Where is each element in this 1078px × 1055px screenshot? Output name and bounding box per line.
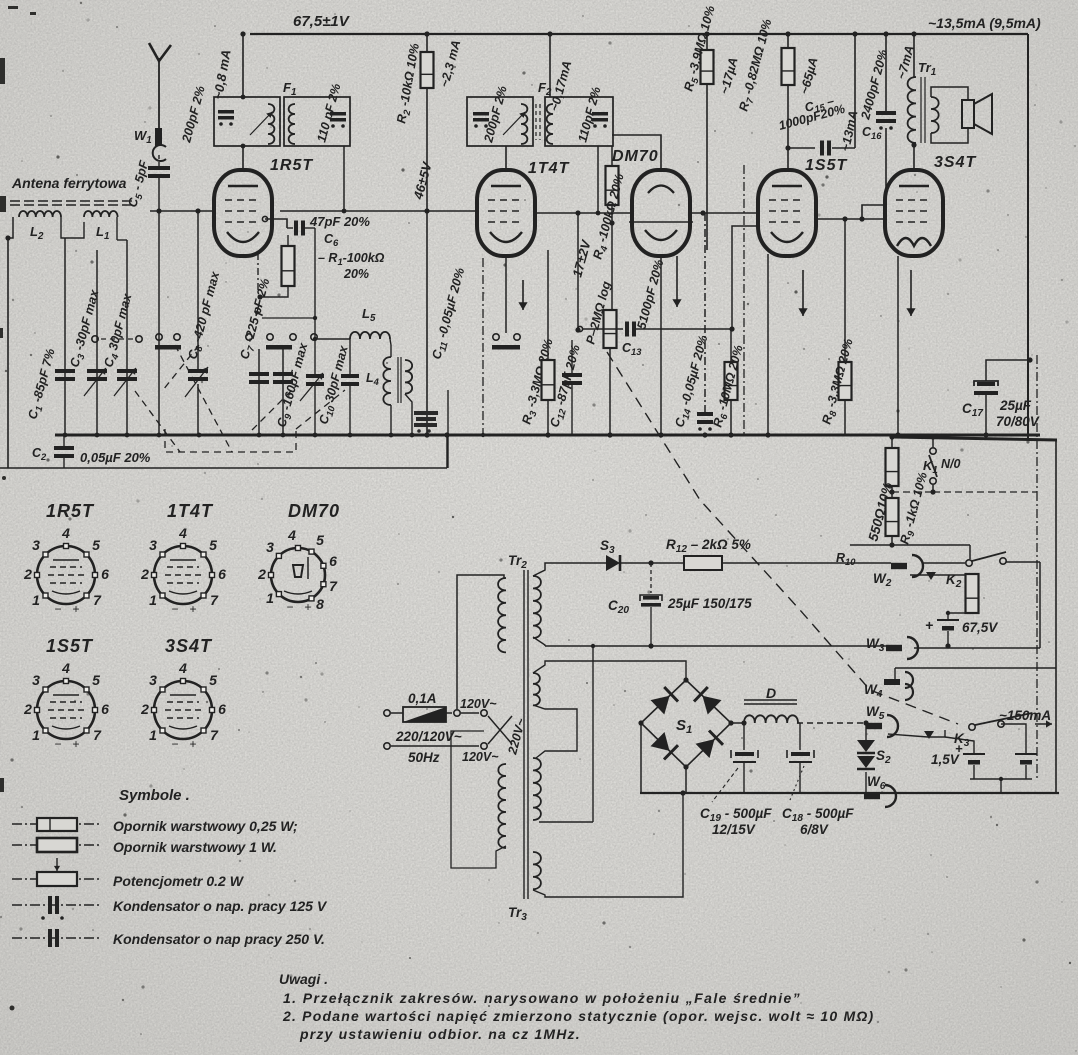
svg-text:2: 2 bbox=[23, 566, 32, 582]
wire C12 top bbox=[571, 340, 573, 373]
svg-text:−: − bbox=[171, 602, 178, 616]
wire S1 to D bbox=[731, 722, 744, 724]
wire F1 out to grid bbox=[343, 146, 345, 211]
wire Tr1 primary top bbox=[913, 34, 915, 77]
wire L1 right end bbox=[116, 217, 118, 240]
node 17V bbox=[575, 327, 580, 332]
wire PSU bottom bus bbox=[640, 792, 1059, 794]
node battery bbox=[946, 611, 950, 615]
coil L6 bbox=[405, 360, 412, 394]
svg-text:+: + bbox=[955, 741, 963, 756]
svg-text:4: 4 bbox=[178, 525, 187, 541]
svg-text:DM70: DM70 bbox=[612, 148, 659, 165]
capacitor C5 5pF bbox=[148, 166, 170, 178]
svg-text:7: 7 bbox=[329, 578, 338, 594]
svg-text:3: 3 bbox=[149, 537, 157, 553]
resistor R5 3,9M bbox=[701, 50, 714, 84]
wire C13 to 1S5T grid bbox=[636, 328, 732, 330]
wire F2 out to grid bbox=[597, 146, 599, 213]
IF transformer F1 box1 bbox=[214, 97, 280, 146]
svg-text:Kondensator o nap. pracy 125: Kondensator o nap. pracy 125 V bbox=[113, 898, 328, 914]
svg-text:6: 6 bbox=[101, 566, 109, 582]
wire C16 top bbox=[885, 34, 887, 111]
svg-text:1T4T: 1T4T bbox=[528, 160, 570, 177]
resistor R12 2k bbox=[684, 556, 722, 570]
wire S1 bottom down bbox=[685, 767, 687, 793]
wire L4 down bbox=[390, 405, 392, 435]
wire 13mA column bbox=[854, 34, 856, 148]
wire 3S4T filament bbox=[897, 256, 899, 435]
vacuum tube V1 1R5T bbox=[214, 170, 272, 256]
gang dash 5 bbox=[252, 385, 297, 430]
jack W4 bbox=[884, 672, 913, 700]
wire F2 to 1T4T anode bbox=[505, 146, 507, 170]
svg-text:+: + bbox=[72, 602, 79, 616]
switch contact i bbox=[493, 334, 499, 340]
node bus bbox=[281, 433, 286, 438]
node bus 0,17mA bbox=[547, 31, 552, 36]
wire Tr1 to 3S4T anode bbox=[913, 143, 915, 171]
node top bbox=[240, 31, 245, 36]
svg-text:50Hz: 50Hz bbox=[408, 750, 440, 765]
wire C2 top bbox=[63, 435, 65, 447]
wire C20 bottom bbox=[650, 607, 652, 646]
svg-text:1: 1 bbox=[266, 590, 274, 606]
wire C17 top bbox=[986, 360, 1030, 381]
coil Tr1 secondary bbox=[931, 97, 939, 133]
wire L2 left end bbox=[8, 217, 13, 238]
wire R8 column bbox=[844, 219, 846, 362]
node R10 R9 bbox=[889, 489, 894, 494]
speaker bbox=[962, 94, 992, 134]
capacitor C8 420pF bbox=[188, 369, 208, 381]
svg-text:~150mA: ~150mA bbox=[999, 708, 1051, 723]
coil Tr2 LV secondary bbox=[533, 673, 540, 705]
svg-text:1S5T: 1S5T bbox=[805, 157, 847, 174]
resistor R2 10k bbox=[421, 52, 434, 88]
node R9 out bbox=[889, 542, 894, 547]
svg-text:1R5T: 1R5T bbox=[46, 501, 95, 521]
wire switch to L5 bbox=[317, 338, 350, 340]
wire K2 to W3 loop bbox=[1039, 562, 1041, 648]
node bus C16 bbox=[883, 31, 888, 36]
switch contact e bbox=[246, 334, 252, 340]
wire C7 column bbox=[258, 349, 260, 435]
wire HV to S3 bbox=[533, 563, 606, 576]
node bus R5 bbox=[704, 31, 709, 36]
svg-text:1. Przełącznik zakresów. nary: 1. Przełącznik zakresów. narysowano w po… bbox=[283, 990, 801, 1006]
wire L5 to L4 bbox=[390, 339, 391, 357]
svg-text:6: 6 bbox=[329, 553, 337, 569]
wire Tr3 loop bbox=[533, 793, 683, 897]
svg-text:7: 7 bbox=[93, 592, 102, 608]
svg-text:1: 1 bbox=[32, 727, 40, 743]
wire to C15 bbox=[788, 147, 815, 149]
core Tr b bbox=[527, 570, 529, 899]
svg-text:5: 5 bbox=[316, 532, 324, 548]
svg-text:+: + bbox=[189, 602, 196, 616]
svg-text:47pF 20%: 47pF 20% bbox=[309, 214, 370, 229]
wire C16 to grid node bbox=[862, 205, 886, 219]
svg-text:1: 1 bbox=[149, 727, 157, 743]
wire heater drop bbox=[592, 646, 594, 822]
switch contact h bbox=[311, 334, 317, 340]
pinout 1S5T bbox=[23, 660, 109, 751]
switch dash a-b bbox=[101, 338, 133, 340]
factory stamp blob bbox=[414, 411, 438, 433]
node bus R2 bbox=[424, 31, 429, 36]
svg-text:1T4T: 1T4T bbox=[167, 501, 214, 521]
wire fuse out bbox=[446, 712, 452, 714]
svg-text:3S4T: 3S4T bbox=[165, 636, 213, 656]
capacitor C3 trimmer bbox=[87, 369, 107, 381]
node R6 top bbox=[729, 326, 734, 331]
gang dash 1 bbox=[135, 391, 180, 452]
node Tr3 bus bbox=[680, 790, 685, 795]
wire 1R5T out bbox=[265, 219, 287, 228]
wire main ground bus bbox=[55, 434, 1040, 437]
contact K1 bottom bbox=[930, 478, 936, 484]
node R6 bus bbox=[728, 432, 733, 437]
wire grid column down bbox=[197, 211, 199, 369]
legend potentiometer bbox=[37, 872, 77, 886]
wire K3 to cap bbox=[1001, 724, 1026, 753]
node AVC tap bbox=[313, 316, 317, 320]
contact K3 right bbox=[998, 721, 1004, 727]
dash-dot right border upper bbox=[1036, 355, 1038, 492]
terminal mains L bbox=[384, 710, 390, 716]
hook W1 bbox=[153, 145, 166, 161]
arrow C4 bbox=[114, 368, 136, 396]
svg-text:przy ustawieniu odbior. na cz: przy ustawieniu odbior. na cz 1MHz. bbox=[299, 1026, 581, 1042]
selector cross a bbox=[488, 716, 512, 744]
inductor D choke bbox=[744, 715, 798, 723]
core F2b bbox=[539, 104, 541, 140]
coil Tr2 primary upper bbox=[498, 578, 506, 652]
resistor R8 3,3M bbox=[839, 362, 852, 400]
svg-text:+: + bbox=[189, 737, 196, 751]
capacitor C7 225pF bbox=[249, 372, 269, 384]
fuse 0,1A bbox=[403, 707, 446, 722]
node heater W3 bbox=[591, 644, 595, 648]
core D a bbox=[744, 699, 797, 701]
capacitor C12 87pF bbox=[562, 373, 582, 385]
wire HV bottom bbox=[533, 637, 545, 646]
jack W2 bbox=[891, 555, 923, 577]
trimmer cap 110pF in F1 bbox=[330, 112, 346, 128]
wire DM70 to 1S5T bbox=[690, 212, 757, 214]
dash-dot 1T4T column bbox=[482, 258, 484, 435]
capacitor C15 1000pF bbox=[820, 141, 831, 156]
wire L1 to C4 bbox=[117, 239, 127, 241]
core L4 b bbox=[400, 357, 402, 403]
gang dash 2 bbox=[175, 345, 232, 452]
svg-text:25µF: 25µF bbox=[999, 398, 1032, 413]
tuning arrow F1 bbox=[250, 112, 272, 135]
wire to 1,5V battery bbox=[945, 737, 974, 753]
capacitor C10b trimmer bbox=[341, 374, 359, 386]
resistor R7 0,82M bbox=[782, 48, 795, 85]
svg-text:1S5T: 1S5T bbox=[46, 636, 94, 656]
resistor R4 100k bbox=[606, 166, 619, 205]
capacitor C9 trimmer bbox=[273, 372, 293, 384]
node K1 link bbox=[930, 489, 935, 494]
svg-text:Kondensator o nap pracy 250 V: Kondensator o nap pracy 250 V. bbox=[113, 931, 325, 947]
wire S3 to R12 bbox=[620, 562, 684, 564]
wire left border bbox=[7, 238, 9, 468]
svg-text:5: 5 bbox=[209, 537, 217, 553]
svg-text:1R5T: 1R5T bbox=[270, 157, 313, 174]
node DM70 grid bbox=[575, 210, 580, 215]
legend lead r1 bbox=[12, 823, 100, 825]
coil F2 primary bbox=[521, 104, 527, 144]
core D b bbox=[744, 703, 797, 705]
contact K1 top bbox=[930, 448, 936, 454]
node bus bbox=[445, 433, 450, 438]
svg-text:6: 6 bbox=[218, 566, 226, 582]
wire C20 top bbox=[650, 563, 652, 593]
node bus bbox=[348, 433, 353, 438]
wire R10 top bbox=[891, 437, 893, 448]
capacitor C13 5100pF bbox=[625, 322, 636, 337]
legend lead cap250 bbox=[12, 937, 100, 939]
node DM70 out bbox=[700, 210, 705, 215]
wire 1S5T grid to R6 bbox=[732, 226, 758, 329]
legend pot arrow bbox=[54, 858, 60, 871]
wire W2 contact to K2 bbox=[910, 574, 965, 576]
gang dash 3 bbox=[163, 345, 199, 390]
coupling coil W1 bbox=[155, 128, 162, 146]
wire R1 bottom bbox=[260, 286, 288, 297]
node C17 right border bbox=[1027, 357, 1032, 362]
battery 67,5V bbox=[937, 620, 959, 631]
node R4 bbox=[609, 220, 614, 225]
legend lead pot bbox=[12, 878, 100, 880]
capacitor C19 500uF bbox=[731, 750, 758, 762]
svg-text:70/80V: 70/80V bbox=[996, 414, 1040, 429]
node F1 out bbox=[342, 209, 347, 214]
coil F2 secondary bbox=[547, 104, 553, 144]
core Tr1 a bbox=[920, 77, 922, 143]
core Tr1 b bbox=[924, 77, 926, 143]
pinout 1R5T bbox=[23, 525, 109, 616]
diode S3 bbox=[606, 555, 620, 571]
node S1 left bbox=[638, 720, 643, 725]
wire wiper to C13 bbox=[583, 328, 623, 330]
potentiometer P 2M bbox=[604, 310, 617, 348]
node L5 row bbox=[313, 337, 317, 341]
wire to fuse bbox=[391, 712, 403, 714]
node Tr1 bottom bbox=[911, 142, 916, 147]
node bus bbox=[95, 433, 100, 438]
svg-text:5: 5 bbox=[92, 537, 100, 553]
capacitor C1 85pF bbox=[55, 369, 75, 381]
wire 1S5T cathode bbox=[767, 254, 769, 435]
wire mains N bbox=[391, 745, 479, 747]
node W5 bbox=[863, 720, 868, 725]
coil L1 bbox=[84, 211, 118, 217]
wire C10b down bbox=[349, 384, 351, 435]
resistor K2 bleeder bbox=[966, 574, 979, 613]
node bus bbox=[157, 433, 162, 438]
vacuum tube V3 DM70 bbox=[629, 170, 693, 256]
pinout 1T4T bbox=[140, 525, 226, 616]
pinout DM70 bbox=[257, 527, 338, 614]
wire to K2 blade bbox=[969, 545, 971, 559]
wire C6 to R1 bbox=[287, 235, 289, 246]
wire C5 down bbox=[158, 178, 160, 211]
wire to battery 67,5V bbox=[948, 612, 972, 614]
node grid left bbox=[195, 208, 200, 213]
svg-text:4: 4 bbox=[61, 525, 70, 541]
leader C19 bbox=[712, 768, 738, 802]
wire LV to S1 bbox=[533, 661, 686, 680]
contact 120V bottom bbox=[481, 743, 487, 749]
coil Tr3 winding lower bbox=[533, 852, 541, 889]
node bus 13mA bbox=[852, 31, 857, 36]
contact K2 left bbox=[966, 560, 972, 566]
node C16 tap bbox=[859, 216, 864, 221]
switch bar 1 bbox=[155, 345, 181, 350]
capacitor C14 0,05uF bbox=[697, 412, 713, 431]
svg-text:5: 5 bbox=[92, 672, 100, 688]
wire R3 top bbox=[547, 250, 549, 360]
node 3S4T bus bbox=[895, 432, 900, 437]
svg-text:Potencjometr 0.2 W: Potencjometr 0.2 W bbox=[113, 873, 245, 889]
wire R9 bottom bbox=[891, 536, 893, 545]
node bus bbox=[313, 433, 318, 438]
svg-text:7: 7 bbox=[210, 592, 219, 608]
wire 1,5V bottom bbox=[973, 765, 975, 779]
switch bar 2 bbox=[266, 345, 292, 350]
coil Tr1 primary bbox=[908, 77, 916, 143]
contact wedge W2 bbox=[926, 572, 936, 580]
coil Tr3 winding upper bbox=[533, 758, 541, 820]
dash-dot AVC line bbox=[743, 165, 745, 435]
wire R3 bottom bbox=[547, 400, 549, 435]
svg-text:67,5V: 67,5V bbox=[962, 620, 998, 635]
wire LV loop bbox=[533, 705, 577, 758]
capacitor C17 25uF electrolytic bbox=[974, 381, 998, 395]
svg-text:25µF 150/175: 25µF 150/175 bbox=[667, 596, 752, 611]
wire DM70 grid column bbox=[577, 213, 579, 330]
svg-text:5: 5 bbox=[209, 672, 217, 688]
node bus bbox=[63, 433, 68, 438]
coil L4 bbox=[383, 357, 391, 405]
wire C10a down bbox=[314, 384, 316, 435]
wire C6 right bbox=[305, 227, 315, 229]
wire 1R5T AVC lead bbox=[257, 253, 259, 293]
antenna bbox=[149, 43, 171, 130]
node 1S5T bus bbox=[765, 432, 770, 437]
wire AVC link bbox=[262, 317, 315, 319]
node C17 bus bbox=[983, 432, 988, 437]
jack W3 bbox=[886, 637, 918, 659]
node R2 bus bbox=[424, 432, 429, 437]
node bus Tr1 bbox=[911, 31, 916, 36]
vacuum tube V4 1S5T bbox=[758, 170, 816, 256]
wire K2 right bbox=[1006, 561, 1040, 563]
node K1 bus bbox=[930, 434, 935, 439]
svg-text:7: 7 bbox=[210, 727, 219, 743]
node C20 tap bbox=[648, 560, 653, 565]
svg-text:−: − bbox=[54, 602, 61, 616]
svg-text:6: 6 bbox=[218, 701, 226, 717]
svg-text:Antena ferrytowa: Antena ferrytowa bbox=[11, 175, 127, 191]
dash mechanical link P-K3 bbox=[607, 352, 958, 724]
trimmer cap in F2b bbox=[592, 112, 608, 128]
svg-text:−: − bbox=[54, 737, 61, 751]
switch contact c bbox=[156, 334, 162, 340]
core F1b bbox=[283, 104, 285, 140]
wire L6 down bbox=[405, 394, 412, 435]
wire battery top bbox=[947, 613, 949, 620]
node bus bbox=[197, 433, 202, 438]
wire W2 to K2 bbox=[922, 562, 965, 564]
svg-text:6: 6 bbox=[101, 701, 109, 717]
wire C8 column bbox=[197, 384, 199, 435]
svg-text:3: 3 bbox=[32, 672, 40, 688]
arrow C8 bbox=[185, 367, 208, 397]
svg-text:3: 3 bbox=[32, 537, 40, 553]
arrow C3 bbox=[84, 368, 106, 396]
wire to W3 bbox=[545, 645, 886, 647]
node antenna junction bbox=[156, 208, 161, 213]
wire L2-L1 link bbox=[61, 217, 84, 238]
diode S2 a bbox=[857, 740, 875, 753]
legend capacitor 125V bbox=[41, 896, 64, 920]
wire 0,8mA feed bbox=[242, 34, 244, 97]
wire bus drop bbox=[446, 435, 448, 468]
resistor R3 3,3M bbox=[542, 360, 555, 400]
wire battery bottom link bbox=[970, 778, 1032, 780]
wire C16 bottom bbox=[885, 128, 887, 205]
vacuum tube V2 1T4T bbox=[477, 170, 535, 256]
svg-text:Opornik warstwowy 1 W.: Opornik warstwowy 1 W. bbox=[113, 839, 277, 855]
node bus bbox=[125, 433, 130, 438]
node bus bbox=[389, 433, 394, 438]
switch contact f bbox=[267, 334, 273, 340]
wire C18 top bbox=[799, 723, 801, 750]
svg-text:– R1-100kΩ: – R1-100kΩ bbox=[318, 251, 385, 267]
wire R2 column / 46V line bbox=[426, 34, 428, 435]
wire W4 top bbox=[894, 668, 896, 679]
node battery W3 bbox=[945, 643, 950, 648]
dash-dot mechanical link column bbox=[1036, 492, 1038, 779]
switch contact b bbox=[136, 336, 142, 342]
wire 1T4T to DM70 bbox=[535, 212, 633, 214]
svg-text:1: 1 bbox=[149, 592, 157, 608]
node battery link bbox=[999, 777, 1003, 781]
svg-text:−: − bbox=[171, 737, 178, 751]
svg-text:2: 2 bbox=[140, 566, 149, 582]
wire DM70 cathode bbox=[660, 254, 662, 435]
wire DM70 anode to R4 bbox=[612, 135, 661, 172]
wire C3 column bbox=[96, 250, 98, 435]
wire lower ground line bbox=[0, 467, 447, 469]
wire K1 top bbox=[932, 437, 934, 447]
node 1T4T dash bus bbox=[481, 433, 485, 437]
svg-text:Uwagi .: Uwagi . bbox=[279, 971, 328, 987]
wire W4 line bbox=[895, 667, 1056, 669]
wire right border bbox=[1027, 34, 1029, 440]
svg-text:2: 2 bbox=[23, 701, 32, 717]
wire D out bbox=[797, 722, 800, 724]
wire 1R5T to 1T4T grid bbox=[280, 210, 427, 212]
svg-text:2: 2 bbox=[257, 566, 266, 582]
node bus bbox=[410, 433, 415, 438]
node F2 out bbox=[596, 211, 601, 216]
